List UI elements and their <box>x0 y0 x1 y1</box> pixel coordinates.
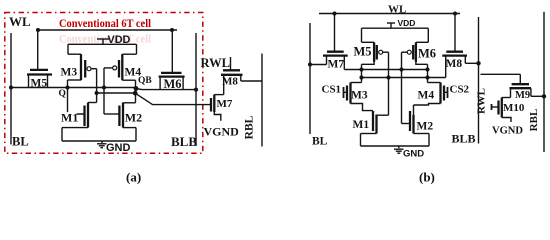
svg-text:M4: M4 <box>418 90 435 102</box>
svg-text:M7: M7 <box>217 98 233 110</box>
svg-text:VGND: VGND <box>492 126 523 137</box>
svg-text:WL: WL <box>9 14 31 29</box>
svg-text:Q: Q <box>59 89 66 99</box>
svg-text:M1: M1 <box>353 119 370 131</box>
svg-text:RBL: RBL <box>528 109 540 132</box>
svg-text:M5: M5 <box>354 45 372 59</box>
svg-text:M3: M3 <box>61 67 78 79</box>
svg-text:M6: M6 <box>164 77 182 91</box>
svg-text:BLB: BLB <box>452 132 476 146</box>
svg-text:BLB: BLB <box>171 134 197 149</box>
svg-text:RBL: RBL <box>244 115 256 139</box>
svg-text:M7: M7 <box>328 58 345 70</box>
svg-text:GND: GND <box>106 142 131 154</box>
svg-text:M1: M1 <box>61 111 78 125</box>
svg-text:RWL: RWL <box>476 88 488 114</box>
svg-text:(a): (a) <box>126 170 141 185</box>
svg-text:RWL: RWL <box>201 56 230 70</box>
svg-text:M4: M4 <box>125 67 142 79</box>
svg-text:WL: WL <box>388 4 406 16</box>
svg-text:M6: M6 <box>418 47 436 61</box>
svg-text:CS2: CS2 <box>450 84 470 96</box>
svg-text:M2: M2 <box>417 121 434 133</box>
svg-text:GND: GND <box>403 149 424 160</box>
svg-text:BL: BL <box>12 135 29 149</box>
svg-text:M2: M2 <box>125 111 142 125</box>
svg-text:M8: M8 <box>446 58 463 70</box>
svg-text:M9: M9 <box>515 90 530 101</box>
svg-text:VGND: VGND <box>204 125 240 139</box>
svg-text:BL: BL <box>312 136 328 148</box>
svg-text:CS1: CS1 <box>322 84 342 96</box>
svg-text:M8: M8 <box>222 76 238 88</box>
svg-text:(b): (b) <box>419 170 435 185</box>
svg-text:Conventional 6T cell: Conventional 6T cell <box>59 18 151 30</box>
svg-text:M3: M3 <box>351 90 368 102</box>
svg-text:M10: M10 <box>503 102 525 114</box>
svg-text:VDD: VDD <box>398 18 416 28</box>
